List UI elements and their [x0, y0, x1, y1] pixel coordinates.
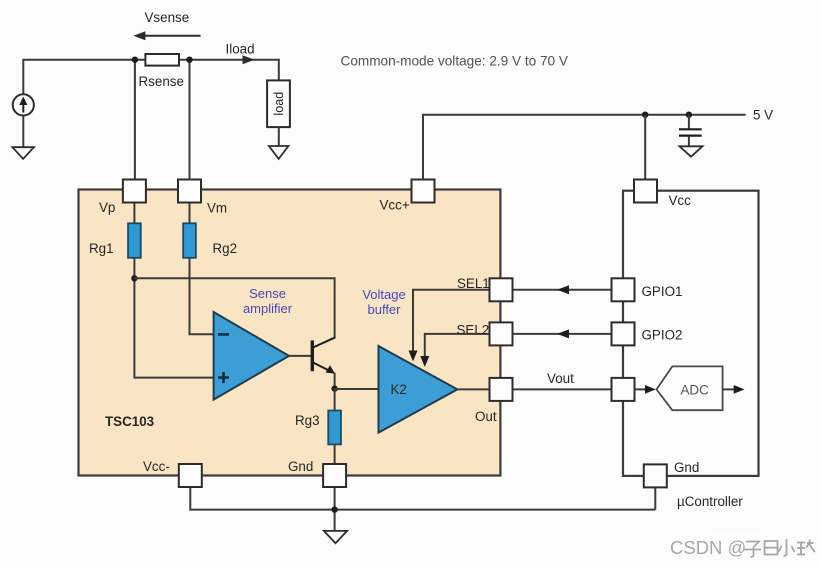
wire Rg2 top: [189, 201, 191, 224]
pin Vm: [178, 180, 201, 203]
wire rail down to uC Vcc pin: [644, 115, 646, 181]
wire Rg1 top: [133, 201, 135, 224]
svg-text:Iload: Iload: [226, 42, 255, 57]
svg-text:SEL1: SEL1: [457, 276, 490, 291]
load element: [267, 80, 290, 127]
svg-text:GPIO1: GPIO1: [642, 284, 683, 299]
svg-text:K2: K2: [391, 382, 407, 397]
pin Vcc-: [179, 464, 202, 487]
node junction emitter / Rg3 / K2: [331, 385, 337, 391]
resistor Rg1: [128, 223, 141, 257]
wire K2 output to Out pin: [457, 388, 490, 390]
wire 5V rail: [423, 115, 746, 180]
watermark CSDN: [670, 534, 815, 558]
svg-text:Rg3: Rg3: [295, 413, 320, 428]
wire SEL1 to buffer (arrow down): [413, 290, 490, 352]
arrow into ADC: [634, 388, 647, 390]
wire junction to Rg3: [334, 389, 336, 411]
svg-text:Sense: Sense: [249, 286, 286, 301]
wire junction to K2 input: [335, 388, 379, 390]
wire GPIO2 to SEL2 (arrow left): [513, 333, 612, 335]
wire feedback to transistor collector: [134, 278, 334, 338]
resistor Rg3: [328, 411, 341, 445]
pin Vcc+: [412, 180, 435, 203]
wire GPIO1 to SEL1 (arrow left): [513, 289, 612, 291]
node junction ground bus: [331, 506, 337, 512]
node junction rail to Vcc: [642, 112, 648, 118]
resistor Rg2: [183, 223, 196, 257]
ground symbol bottom: [324, 531, 347, 543]
wire Vp sense line: [134, 60, 136, 181]
pin Gnd uC: [644, 464, 667, 487]
arrow out of ADC: [723, 388, 736, 390]
wire SEL2 to buffer (arrow down): [425, 334, 490, 358]
glyph jiu: [797, 540, 815, 555]
pin SEL2: [490, 322, 513, 345]
capacitor C1: [679, 115, 702, 147]
node junction at Rsense right: [186, 57, 192, 63]
svg-text:Voltage: Voltage: [362, 287, 405, 302]
arrow Iload (pointing right): [243, 55, 255, 64]
ground below capacitor: [680, 146, 703, 156]
svg-text:ADC: ADC: [681, 383, 710, 398]
pin Gnd TSC103: [323, 464, 346, 487]
op-amp U1 sense amplifier: [214, 312, 289, 400]
svg-text:GPIO2: GPIO2: [642, 328, 683, 343]
svg-text:5 V: 5 V: [753, 108, 773, 123]
pin ADC input: [612, 378, 635, 401]
svg-text:Vcc: Vcc: [669, 193, 692, 208]
wire uC Gnd pin down: [654, 488, 656, 510]
wire Rg3 to Gnd pin: [334, 444, 336, 465]
transistor Q1: [312, 337, 335, 388]
svg-text:Out: Out: [475, 409, 497, 424]
svg-text:Common-mode voltage: 2.9 V to: Common-mode voltage: 2.9 V to 70 V: [341, 54, 568, 69]
pin SEL1: [490, 278, 513, 301]
glyph yue: [765, 541, 778, 555]
pin GPIO1: [612, 278, 635, 301]
svg-text:buffer: buffer: [367, 302, 401, 317]
wire top rail from current source to load: [23, 60, 278, 95]
resistor Rsense: [145, 54, 179, 66]
wire Rg1 bottom to plus input: [134, 258, 213, 378]
svg-text:Rg2: Rg2: [213, 241, 238, 256]
wire current source to ground: [22, 116, 24, 148]
wire Gnd pin down to ground: [334, 487, 336, 531]
node junction rail to capacitor: [686, 112, 692, 118]
IC body TSC103: [79, 190, 501, 476]
svg-text:load: load: [272, 92, 286, 116]
glyph zi: [744, 542, 761, 558]
ground below load: [269, 146, 289, 159]
ADC block: [657, 366, 723, 410]
pin Vcc uC: [634, 180, 657, 203]
svg-text:Vp: Vp: [99, 200, 115, 215]
svg-text:Vout: Vout: [547, 371, 574, 386]
svg-text:µController: µController: [677, 494, 743, 509]
wire load to ground: [278, 127, 280, 146]
svg-text:Rg1: Rg1: [89, 241, 114, 256]
wire Rg2 bottom to minus input: [190, 258, 214, 334]
glyph xiao: [779, 539, 795, 556]
wire Vm sense line: [189, 60, 191, 181]
pin Vp: [123, 180, 146, 203]
pin Out: [490, 378, 513, 401]
svg-text:Vcc-: Vcc-: [143, 459, 170, 474]
svg-text:TSC103: TSC103: [105, 414, 154, 429]
svg-text:Gnd: Gnd: [674, 460, 699, 475]
wire Out pin to ADC pin, label Vout: [513, 388, 612, 390]
microcontroller body: [623, 191, 759, 476]
buffer K2: [379, 346, 458, 433]
current source I1: [13, 94, 34, 115]
svg-text:Vsense: Vsense: [145, 10, 190, 25]
svg-text:Gnd: Gnd: [288, 459, 313, 474]
wire op-amp output to transistor base: [289, 355, 312, 357]
pin GPIO2: [612, 322, 635, 345]
svg-text:amplifier: amplifier: [243, 301, 293, 316]
wire Vcc- pin to ground bus: [190, 487, 655, 510]
node junction feedback: [131, 275, 137, 281]
svg-text:Vcc+: Vcc+: [380, 198, 410, 213]
svg-text:CSDN @: CSDN @: [670, 537, 746, 558]
ground below current source: [12, 147, 34, 159]
svg-text:SEL2: SEL2: [457, 323, 490, 338]
arrow Vsense (pointing left): [143, 35, 201, 37]
svg-text:Rsense: Rsense: [139, 74, 184, 89]
svg-text:Vm: Vm: [207, 201, 227, 216]
node junction at Rsense left: [132, 57, 138, 63]
